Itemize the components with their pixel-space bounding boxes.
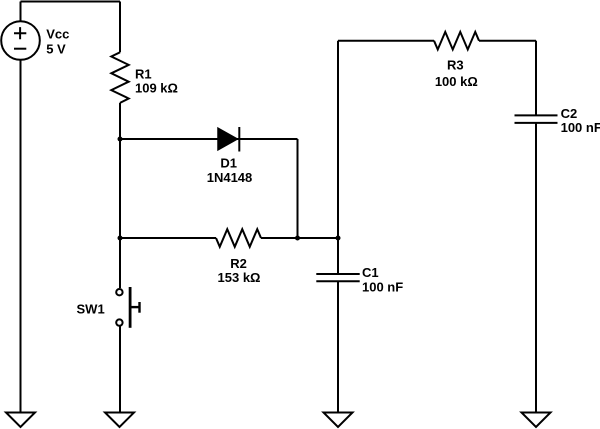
svg-text:153 kΩ: 153 kΩ bbox=[218, 270, 261, 285]
svg-text:C2: C2 bbox=[561, 106, 578, 121]
svg-text:5 V: 5 V bbox=[46, 41, 66, 56]
svg-text:Vcc: Vcc bbox=[46, 27, 69, 42]
svg-text:R3: R3 bbox=[447, 58, 464, 73]
svg-text:100 nF: 100 nF bbox=[561, 120, 600, 135]
svg-text:100 kΩ: 100 kΩ bbox=[435, 74, 478, 89]
svg-text:109 kΩ: 109 kΩ bbox=[135, 81, 178, 96]
svg-text:SW1: SW1 bbox=[77, 302, 105, 317]
svg-text:100 nF: 100 nF bbox=[362, 280, 403, 295]
svg-text:1N4148: 1N4148 bbox=[207, 170, 253, 185]
svg-text:R1: R1 bbox=[135, 66, 152, 81]
svg-text:D1: D1 bbox=[220, 156, 237, 171]
svg-text:C1: C1 bbox=[362, 265, 379, 280]
svg-text:R2: R2 bbox=[230, 256, 247, 271]
